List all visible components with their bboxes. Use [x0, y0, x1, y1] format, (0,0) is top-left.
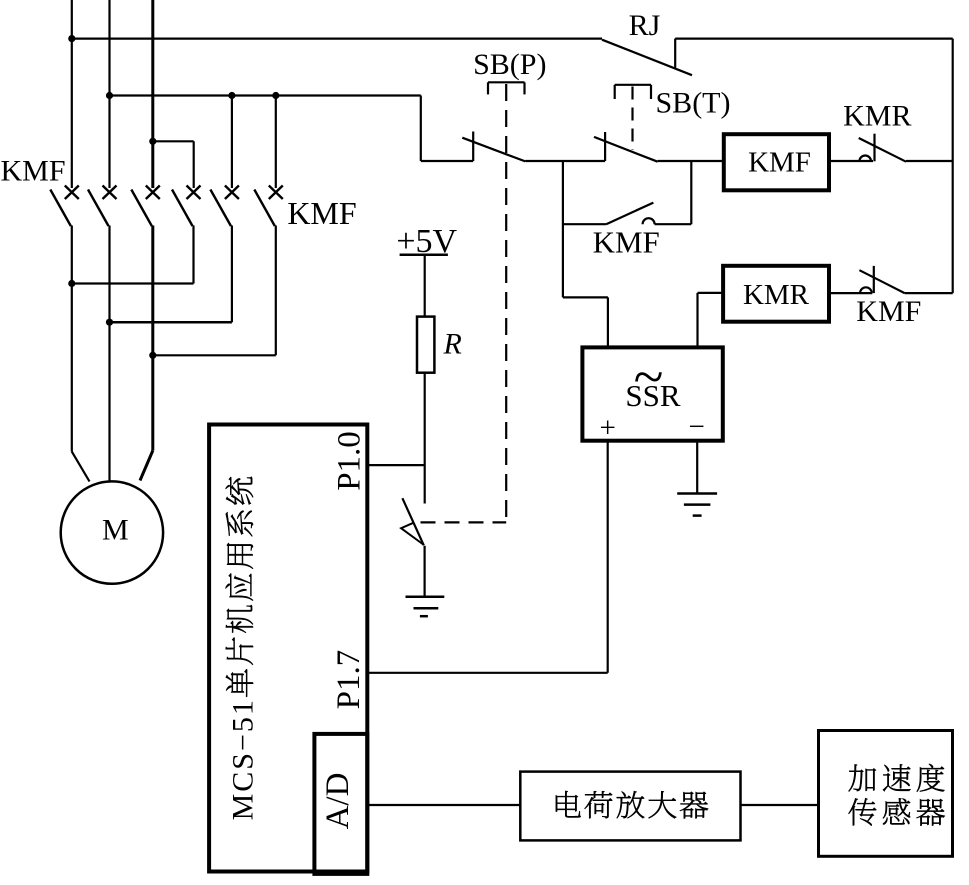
svg-text:~: ~ — [634, 346, 664, 407]
interlock contact KMR normally-closed — [859, 134, 953, 162]
svg-text:KMR: KMR — [743, 279, 810, 311]
svg-text:KMF: KMF — [593, 225, 660, 260]
node junction L2-rail — [106, 92, 113, 99]
wire rail drop to control line — [420, 96, 422, 162]
contactor main contact KMF-5 — [210, 186, 239, 227]
node junction rail-contact6 — [272, 92, 279, 99]
coil KMF box — [724, 134, 829, 190]
wire control rail — [110, 94, 421, 96]
dashed actuator link horizontal — [421, 521, 507, 523]
wire contact to ground — [424, 546, 426, 597]
wire contact4 bottom return — [192, 226, 194, 284]
wire phase line L2 lower — [108, 226, 110, 482]
ground symbol SSR — [677, 494, 717, 516]
wire +5V to resistor — [424, 255, 426, 317]
wire charge amplifier to sensor — [741, 804, 819, 806]
push button SB(T) cap — [615, 85, 651, 99]
wire latch branch vertical — [562, 161, 564, 297]
label A/D — [320, 773, 356, 830]
svg-text:KMF: KMF — [287, 195, 356, 231]
wire phase line L3 lower — [151, 226, 154, 451]
wire A/D to charge amplifier — [367, 804, 520, 806]
svg-text:SB(T): SB(T) — [656, 87, 731, 120]
push button SB(P) contact — [462, 132, 525, 162]
charge amplifier box — [520, 772, 740, 841]
label acceleration sensor line2 传感器 — [848, 798, 944, 826]
wire latch left — [563, 223, 606, 225]
svg-text:KMR: KMR — [843, 100, 911, 133]
wire phase line L1 upper — [71, 0, 73, 188]
push button SB(P) cap — [488, 82, 525, 94]
wire phase line L2 upper — [108, 0, 110, 188]
wire SSR to KMR coil — [696, 293, 698, 348]
wire P1.0 — [367, 464, 424, 466]
contactor main contact KMF-2 — [88, 186, 117, 227]
svg-text:P1.7: P1.7 — [331, 650, 367, 710]
motor M circle — [61, 481, 163, 583]
contactor main contact KMF-3 — [131, 186, 160, 227]
svg-text:M: M — [102, 514, 129, 547]
interlock contact KMF normally-closed — [859, 266, 952, 293]
auxiliary contact KMF normally-open — [606, 203, 654, 225]
svg-text:A/D: A/D — [320, 773, 356, 830]
contactor main contact KMF-4 — [172, 186, 201, 227]
wire contact5 bottom return — [231, 226, 233, 323]
wire latch right — [655, 223, 692, 225]
svg-text:R: R — [443, 328, 462, 361]
label charge amplifier 电荷放大器 — [556, 791, 708, 819]
svg-text:−: − — [689, 411, 705, 443]
wire phase line L1 lower — [71, 226, 73, 452]
svg-text:RJ: RJ — [629, 9, 661, 42]
coil KMR box — [723, 266, 829, 322]
node junction rail-contact5 — [228, 92, 235, 99]
svg-text:P1.0: P1.0 — [331, 431, 367, 491]
linked contact blade — [402, 498, 423, 545]
wire L3 to contact4 top — [153, 140, 194, 142]
contactor main contact KMF-6 — [254, 186, 282, 227]
label acceleration sensor line1 加速度 — [849, 764, 945, 792]
push button SB(T) contact — [594, 132, 658, 162]
wire contact6 bottom return — [275, 226, 277, 356]
wire resistor to P1.0 node — [424, 373, 426, 504]
node junction L2-return — [106, 319, 113, 326]
svg-text:KMF: KMF — [0, 155, 65, 188]
label P1.7 — [331, 650, 367, 710]
node junction L3-wire — [149, 138, 156, 145]
wire L1 to motor — [72, 452, 90, 482]
wire branch to SSR left — [563, 296, 608, 298]
wire top bus — [72, 37, 602, 39]
resistor R — [417, 317, 434, 373]
wire right bus vertical — [952, 39, 954, 294]
svg-text:SB(P): SB(P) — [473, 48, 546, 81]
label MCS-51 microcontroller system — [225, 477, 259, 821]
linked contact arrow — [401, 523, 423, 545]
ground symbol P1.0 — [406, 597, 445, 616]
node junction L1-top bus — [68, 35, 75, 42]
svg-text:+: + — [600, 412, 616, 444]
wire control line segment — [525, 160, 605, 162]
svg-text:KMF: KMF — [856, 295, 921, 328]
svg-text:+5V: +5V — [396, 223, 457, 260]
thermal relay contact RJ — [602, 39, 953, 76]
wire rail to contact5 top — [231, 96, 233, 189]
dashed actuator link SB(T) — [631, 87, 633, 151]
node junction L1-return — [68, 280, 75, 287]
wire phase line L3 upper — [151, 0, 154, 188]
power +5V rail bar — [400, 254, 448, 257]
wire SSR minus to ground — [696, 441, 698, 494]
contactor main contact KMF-1 — [50, 186, 79, 227]
svg-text:KMF: KMF — [748, 147, 811, 179]
wire rail to contact6 top — [275, 96, 277, 189]
svg-text:MCS−51: MCS−51 — [227, 698, 260, 820]
node junction L3-return — [149, 352, 156, 359]
solid state relay SSR box — [582, 347, 722, 440]
wire SSR plus to P1.7 — [607, 441, 609, 673]
wire L3 to motor — [140, 451, 153, 481]
wire to KMF coil — [658, 160, 724, 162]
microcontroller MCS-51 box — [209, 425, 367, 872]
wire KMR coil to KMF contact — [829, 292, 872, 294]
label P1.0 — [331, 431, 367, 491]
A/D converter box — [314, 734, 367, 874]
dashed actuator link SB(P) — [505, 84, 507, 522]
wire KMF coil to KMR contact — [829, 160, 873, 162]
acceleration sensor box — [819, 731, 953, 857]
